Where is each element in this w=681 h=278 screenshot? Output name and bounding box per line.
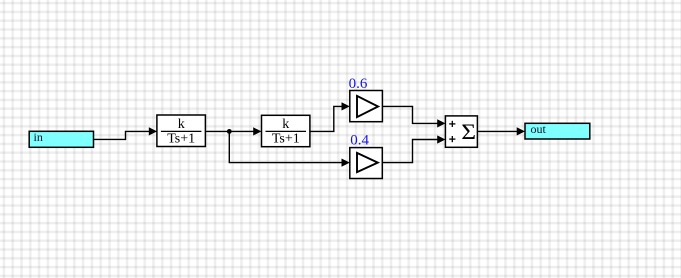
- svg-text:k: k: [178, 117, 185, 132]
- wire from gain K1 to summer: [382, 106, 437, 123]
- arrowhead into block U1: [149, 127, 157, 135]
- svg-text:in: in: [34, 130, 43, 144]
- svg-text:Ts+1: Ts+1: [167, 131, 195, 146]
- svg-text:out: out: [531, 122, 547, 136]
- wire from gain K2 to summer: [382, 140, 437, 163]
- branch wire from junction down to gain K2: [229, 131, 342, 162]
- wire from U1 to U2: [205, 130, 253, 132]
- svg-text:Ts+1: Ts+1: [272, 131, 300, 146]
- plus sign upper input: [449, 121, 455, 127]
- arrowhead into summer lower input: [437, 135, 445, 143]
- summation block U3: [445, 116, 477, 147]
- junction node dot: [227, 129, 232, 134]
- plus sign lower input: [449, 136, 455, 142]
- arrowhead into gain K1: [342, 102, 350, 110]
- input block "in": [29, 130, 93, 147]
- svg-text:k: k: [282, 117, 289, 132]
- svg-text:0.6: 0.6: [349, 76, 368, 92]
- gain block K2: [350, 148, 383, 179]
- svg-text:0.4: 0.4: [350, 133, 369, 149]
- arrowhead into out block: [517, 127, 525, 135]
- wire from summer to out block: [477, 130, 517, 132]
- gain block K1: [350, 91, 383, 122]
- transfer function block U2 k/(Ts+1): [262, 115, 310, 146]
- svg-text:Σ: Σ: [461, 120, 476, 144]
- arrowhead into gain K2: [342, 159, 350, 167]
- arrowhead into summer upper input: [437, 119, 445, 127]
- output block "out": [525, 122, 590, 139]
- wire from U2 up to gain K1: [310, 106, 342, 131]
- arrowhead into block U2: [253, 127, 261, 135]
- transfer function block U1 k/(Ts+1): [157, 115, 206, 147]
- wire from in block up to first transfer block: [94, 131, 150, 139]
